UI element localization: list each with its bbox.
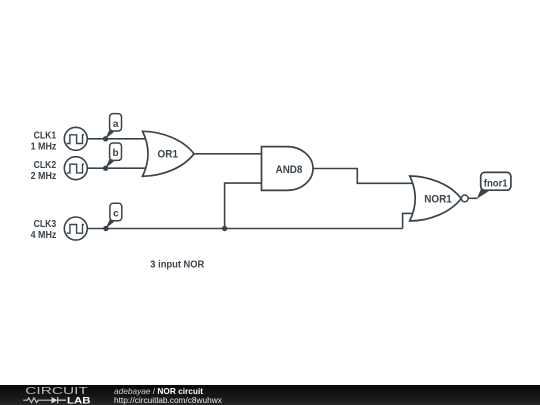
svg-text:OR1: OR1 [158, 149, 179, 161]
svg-text:NOR1: NOR1 [424, 194, 451, 206]
nor-gate NOR1 [410, 176, 468, 221]
svg-text:CLK1: CLK1 [34, 131, 57, 142]
wire junction riser to AND8 input B [225, 183, 262, 228]
node junction b [103, 166, 108, 171]
node junction a [103, 136, 108, 141]
node junction CLK3/AND8 branch [222, 226, 227, 231]
clock source CLK2 [64, 157, 87, 180]
CircuitLab logo [0, 383, 100, 405]
label CLK1 1 MHz [31, 131, 57, 153]
svg-text:2 MHz: 2 MHz [31, 171, 57, 182]
label CLK3 4 MHz [31, 219, 57, 241]
svg-text:1 MHz: 1 MHz [31, 142, 57, 153]
svg-text:CLK2: CLK2 [34, 160, 57, 171]
svg-text:CLK3: CLK3 [34, 219, 57, 230]
svg-text:b: b [113, 148, 119, 159]
footer credit text [114, 387, 222, 404]
flag tag c [106, 203, 122, 228]
wire OR1 output to AND8 input A [194, 153, 262, 155]
node junction c [103, 226, 108, 231]
svg-text:3 input NOR: 3 input NOR [150, 259, 204, 271]
svg-text:c: c [113, 209, 119, 220]
flag tag a [105, 114, 121, 139]
wire CLK3 net [87, 228, 402, 230]
and-gate AND8 [262, 147, 314, 191]
wire NOR1 bubble stub [468, 197, 478, 199]
svg-text:a: a [113, 119, 119, 130]
label CLK2 2 MHz [31, 160, 57, 182]
clock source CLK3 [64, 217, 87, 240]
flag tag b [105, 143, 121, 168]
or-gate OR1 [143, 131, 195, 176]
wire CLK3 to NOR1 input B [403, 213, 414, 228]
wire AND8 output to NOR1 input A [313, 169, 414, 184]
flag tag fnor1 [477, 172, 511, 198]
wire CLK1 to OR1 input A [87, 138, 147, 140]
svg-text:4 MHz: 4 MHz [31, 230, 57, 241]
svg-text:LAB: LAB [67, 396, 91, 405]
svg-text:fnor1: fnor1 [484, 178, 508, 189]
footer bar [0, 385, 540, 405]
clock source CLK1 [64, 127, 87, 150]
svg-text:AND8: AND8 [276, 164, 303, 176]
wire CLK2 to OR1 input B [87, 167, 147, 169]
